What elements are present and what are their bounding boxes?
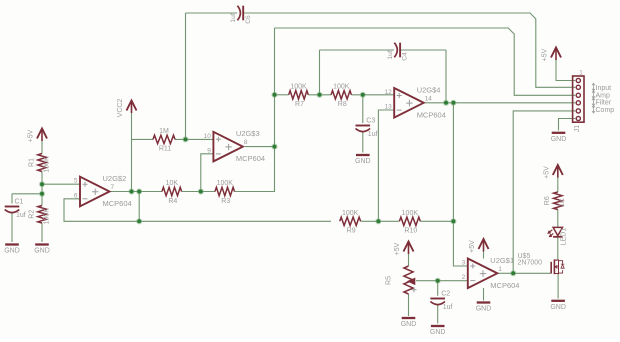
svg-text:10K: 10K bbox=[166, 180, 179, 187]
junction bbox=[360, 92, 366, 98]
svg-text:R2: R2 bbox=[28, 210, 35, 219]
wire R6 to LED1 bbox=[557, 210, 559, 228]
svg-text:1uf: 1uf bbox=[368, 131, 378, 138]
wire C2 to ground bbox=[437, 305, 439, 324]
wire C5 to J1 pin2 Input bbox=[244, 13, 575, 87]
svg-text:R7: R7 bbox=[295, 101, 304, 108]
svg-text:14: 14 bbox=[425, 95, 433, 102]
wire R9 to R10 bbox=[361, 220, 400, 222]
ground under U2G$1 bbox=[476, 303, 492, 313]
svg-text:7: 7 bbox=[111, 184, 115, 191]
wire U2G$2 feedback to R9 bbox=[64, 199, 331, 222]
wire U2G$4 pin13 feedback bbox=[378, 110, 394, 221]
svg-text:+5V: +5V bbox=[469, 240, 476, 253]
wire +5V to R5 bbox=[408, 252, 410, 266]
svg-text:100K: 100K bbox=[402, 210, 419, 217]
ground under R5 bbox=[401, 318, 417, 328]
svg-text:1uf: 1uf bbox=[387, 50, 394, 59]
wire amp net to R7 bbox=[275, 94, 289, 96]
wire node to U2G$1 pin3 bbox=[453, 221, 467, 266]
svg-text:U2G$3: U2G$3 bbox=[236, 129, 260, 138]
svg-text:U2G$4: U2G$4 bbox=[417, 85, 441, 94]
op-amp U2G$4 bbox=[384, 85, 445, 119]
svg-text:1uf: 1uf bbox=[443, 304, 453, 311]
svg-text:100K: 100K bbox=[217, 180, 234, 187]
svg-text:1uf: 1uf bbox=[16, 212, 26, 219]
wire R2 to ground bbox=[41, 223, 43, 242]
wire U2G$3 pin9 feedback bbox=[201, 154, 214, 192]
wire VCC2 to R11 bbox=[132, 138, 154, 140]
svg-text:C4: C4 bbox=[402, 52, 409, 61]
svg-text:GND: GND bbox=[430, 329, 446, 336]
connector J1 bbox=[573, 71, 584, 133]
wire LED1 to Q drain bbox=[557, 238, 559, 260]
svg-text:+5V: +5V bbox=[394, 242, 401, 255]
svg-text:12: 12 bbox=[384, 89, 392, 96]
svg-text:R4: R4 bbox=[168, 198, 177, 205]
junction bbox=[435, 278, 441, 284]
svg-text:GND: GND bbox=[4, 248, 20, 255]
wire Q source to ground bbox=[557, 274, 559, 299]
wire node to U2G$4 output bbox=[452, 103, 454, 222]
wire U2G$3 output bbox=[245, 146, 275, 148]
svg-text:R9: R9 bbox=[347, 228, 356, 235]
wire feedback tie vertical bbox=[138, 192, 140, 222]
svg-text:R10: R10 bbox=[404, 228, 417, 235]
svg-text:LED1: LED1 bbox=[560, 228, 567, 246]
svg-text:VCC2: VCC2 bbox=[117, 99, 124, 118]
svg-text:R8: R8 bbox=[338, 101, 347, 108]
wire input net vertical bbox=[185, 13, 187, 139]
wire R10 to node bbox=[420, 220, 453, 222]
wire input net to C5 left bbox=[186, 12, 238, 14]
ground under C2 bbox=[430, 326, 446, 336]
resistor R10 bbox=[399, 210, 420, 235]
svg-text:3: 3 bbox=[462, 260, 466, 267]
svg-text:Amp: Amp bbox=[596, 92, 611, 99]
junction bbox=[39, 191, 45, 197]
svg-text:R11: R11 bbox=[159, 146, 171, 153]
junction bbox=[182, 136, 188, 142]
resistor R2 bbox=[28, 206, 50, 225]
wire divider to C1 bbox=[12, 193, 42, 195]
wire +5V to U2G$1 bbox=[483, 251, 485, 259]
svg-text:U2G$1: U2G$1 bbox=[490, 256, 514, 265]
ground under R2 bbox=[34, 245, 50, 255]
resistor R6 bbox=[544, 192, 566, 210]
capacitor C2 bbox=[430, 291, 452, 311]
resistor R3 bbox=[215, 180, 235, 205]
trimmer R5 bbox=[386, 266, 417, 294]
capacitor C1 bbox=[5, 199, 26, 219]
resistor R7 bbox=[289, 84, 309, 109]
junction bbox=[316, 92, 322, 98]
junction bbox=[510, 270, 516, 276]
svg-text:C1: C1 bbox=[15, 199, 24, 206]
svg-text:100K: 100K bbox=[290, 84, 307, 91]
svg-text:1: 1 bbox=[498, 266, 502, 273]
power +5V for J1 bbox=[542, 48, 561, 62]
svg-text:C2: C2 bbox=[441, 291, 450, 298]
power +5V for LED chain bbox=[544, 165, 563, 179]
svg-text:GND: GND bbox=[401, 321, 417, 328]
LED LED1 bbox=[548, 227, 567, 245]
op-amp U2G$3 bbox=[204, 129, 265, 163]
svg-text:MCP604: MCP604 bbox=[236, 154, 265, 163]
svg-text:R5: R5 bbox=[386, 276, 393, 285]
svg-text:2: 2 bbox=[462, 274, 466, 281]
wire R7 to R8 bbox=[308, 94, 331, 96]
op-amp U2G$1 bbox=[462, 256, 520, 290]
junction bbox=[136, 218, 142, 224]
wire U2G$1 to ground bbox=[483, 288, 485, 301]
svg-text:1uf: 1uf bbox=[230, 13, 237, 22]
svg-text:8: 8 bbox=[244, 139, 248, 146]
svg-text:Input: Input bbox=[596, 85, 612, 92]
svg-text:MCP604: MCP604 bbox=[417, 110, 446, 119]
svg-text:GND: GND bbox=[551, 136, 567, 143]
power VCC2 rail symbol bbox=[117, 99, 136, 118]
ground under J1 bbox=[551, 133, 567, 143]
junction bbox=[450, 100, 456, 106]
svg-text:+5V: +5V bbox=[544, 166, 551, 179]
wire C4 right vertical bbox=[445, 50, 447, 103]
junction bbox=[271, 144, 277, 150]
svg-text:R6: R6 bbox=[544, 196, 551, 205]
wire R8 to U2G$4 pin12 bbox=[351, 94, 394, 96]
svg-text:9: 9 bbox=[207, 147, 211, 154]
capacitor C3 bbox=[356, 118, 378, 138]
capacitor C5 bbox=[230, 6, 252, 24]
wire +5V to R1 bbox=[41, 140, 43, 154]
svg-text:13: 13 bbox=[384, 104, 392, 111]
wire VCC2 vertical bbox=[131, 104, 133, 192]
power +5V for U2G$1 bbox=[469, 239, 488, 253]
resistor R8 bbox=[331, 84, 351, 109]
resistor R1 bbox=[28, 154, 50, 173]
svg-text:C6: C6 bbox=[245, 15, 252, 24]
wire amp net vertical bbox=[274, 28, 276, 192]
wire U2G$2 output to R4 bbox=[110, 191, 163, 193]
svg-text:R1: R1 bbox=[28, 158, 35, 167]
svg-text:1M: 1M bbox=[159, 128, 169, 135]
svg-text:R3: R3 bbox=[221, 198, 230, 205]
wire U2G$4 output to J1 pin4 Filter bbox=[424, 102, 575, 104]
wire C4 left vertical bbox=[319, 50, 321, 95]
wire R5 to ground bbox=[408, 294, 410, 316]
wire R4 to R3 bbox=[182, 191, 215, 193]
junction bbox=[198, 188, 204, 194]
svg-text:J1: J1 bbox=[574, 125, 581, 133]
resistor R4 bbox=[162, 180, 182, 205]
svg-text:1K: 1K bbox=[559, 198, 566, 207]
wire R11 to U2G$3 pin10 bbox=[175, 138, 213, 140]
wire to C3 bbox=[362, 95, 364, 123]
wire +5V to J1 pin1 bbox=[556, 59, 575, 81]
junction bbox=[136, 188, 142, 194]
svg-text:5: 5 bbox=[74, 178, 78, 185]
junction bbox=[271, 92, 277, 98]
svg-text:100K: 100K bbox=[43, 156, 50, 173]
wire C1 top lead bbox=[11, 194, 13, 204]
wire to C2 bbox=[437, 281, 439, 296]
svg-text:C3: C3 bbox=[366, 118, 375, 125]
wire C4 loop right bbox=[401, 49, 446, 51]
capacitor C4 bbox=[387, 43, 409, 61]
svg-text:Filter: Filter bbox=[596, 100, 612, 107]
op-amp U2G$2 bbox=[74, 174, 132, 208]
svg-text:100K: 100K bbox=[342, 210, 359, 217]
svg-text:Comp: Comp bbox=[596, 107, 615, 114]
svg-text:2N7000: 2N7000 bbox=[518, 260, 543, 267]
svg-text:GND: GND bbox=[34, 248, 50, 255]
svg-text:6: 6 bbox=[74, 192, 78, 199]
wire C4 loop left bbox=[320, 49, 395, 51]
junction bbox=[450, 218, 456, 224]
svg-text:MCP604: MCP604 bbox=[103, 199, 132, 208]
wire U2G$1 output to Q gate bbox=[497, 272, 552, 274]
junction bbox=[128, 188, 134, 194]
svg-text:GND: GND bbox=[550, 304, 566, 311]
junction bbox=[39, 181, 45, 187]
wire comp net to J1 pin5 bbox=[513, 111, 575, 273]
svg-text:GND: GND bbox=[476, 306, 492, 313]
junction bbox=[443, 100, 449, 106]
svg-text:100K: 100K bbox=[43, 208, 50, 225]
junction bbox=[375, 218, 381, 224]
ground under Q source bbox=[550, 301, 566, 311]
wire C3 to ground bbox=[362, 132, 364, 153]
svg-text:10: 10 bbox=[204, 133, 212, 140]
wire R3 to amp net bbox=[235, 191, 275, 193]
svg-text:+5V: +5V bbox=[542, 48, 549, 61]
svg-text:100K: 100K bbox=[333, 84, 350, 91]
transistor U$5 2N7000 bbox=[518, 253, 565, 274]
wire trimmer wiper to U2G$1 pin2 bbox=[416, 280, 468, 282]
wire C1 to ground bbox=[11, 213, 13, 243]
resistor R9 bbox=[340, 210, 361, 235]
ground under C1 bbox=[4, 245, 20, 255]
svg-text:MCP604: MCP604 bbox=[490, 281, 519, 290]
resistor R11 bbox=[153, 128, 175, 153]
svg-text:+5V: +5V bbox=[28, 129, 35, 142]
ground under C3 bbox=[355, 155, 371, 165]
wire divider to U2G$2 pin5 bbox=[42, 183, 80, 185]
power +5V supply for divider bbox=[28, 129, 47, 143]
wire R1 to R2 divider bbox=[41, 172, 43, 206]
wire J1 pin6 to GND bbox=[559, 119, 576, 131]
wire +5V to R6 bbox=[557, 176, 559, 192]
wire amp net to J1 pin3 bbox=[275, 28, 576, 95]
power +5V for trimmer R5 bbox=[394, 242, 413, 256]
svg-text:U2G$2: U2G$2 bbox=[103, 174, 127, 183]
svg-text:GND: GND bbox=[355, 158, 371, 165]
